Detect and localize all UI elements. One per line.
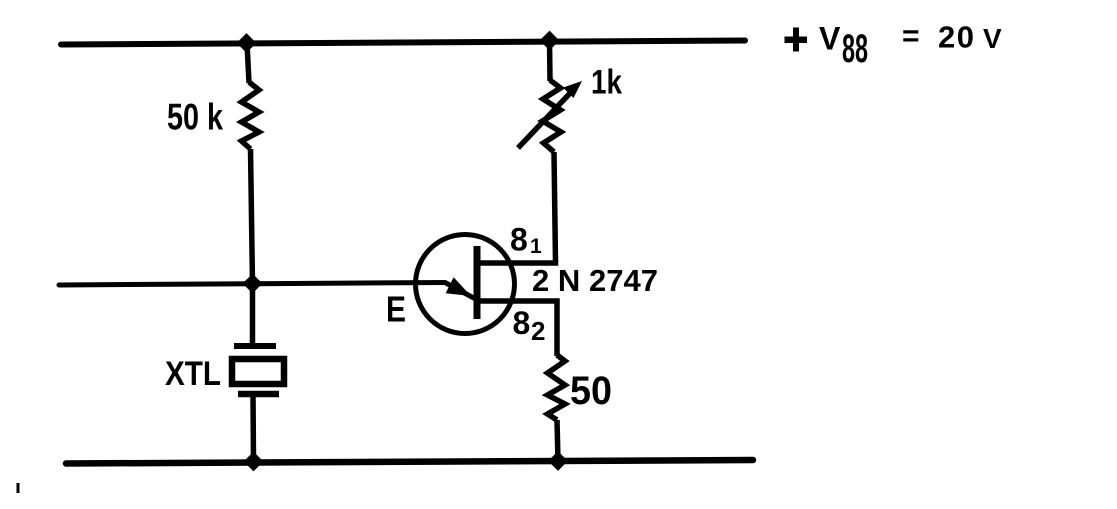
- wire top rail to 1k potentiometer: [547, 41, 553, 81]
- variable resistor 1k: [543, 80, 562, 152]
- resistor R 50k: [242, 82, 260, 149]
- node top-right junction: [540, 31, 560, 51]
- wire 50 resistor to bottom rail: [557, 420, 558, 461]
- svg-text:V: V: [819, 21, 841, 57]
- svg-text:1k: 1k: [591, 64, 622, 102]
- svg-text:2: 2: [531, 316, 545, 346]
- wire base-two lead B2: [478, 301, 557, 356]
- node middle junction: [243, 274, 263, 294]
- svg-text:=: =: [902, 20, 920, 53]
- resistor R 50: [548, 355, 566, 420]
- node bottom-right junction: [548, 451, 568, 471]
- svg-text:XTL: XTL: [165, 355, 221, 393]
- svg-text:2 N 2747: 2 N 2747: [532, 263, 658, 298]
- wire top supply rail: [61, 41, 745, 45]
- svg-text:1: 1: [530, 235, 542, 258]
- svg-text:8: 8: [513, 305, 531, 341]
- svg-text:8: 8: [510, 222, 528, 258]
- svg-text:88: 88: [842, 27, 868, 71]
- wire from top rail to 50k resistor: [247, 43, 249, 83]
- svg-text:V: V: [983, 23, 1002, 54]
- arrow of variable resistor: [518, 81, 582, 148]
- svg-text:20: 20: [938, 20, 974, 55]
- svg-text:50: 50: [570, 369, 612, 413]
- label B2: [513, 305, 546, 346]
- wire 50k resistor to middle-rail junction: [251, 149, 253, 284]
- node bottom-left junction: [244, 452, 264, 472]
- svg-text:E: E: [386, 289, 406, 330]
- svg-text:50 k: 50 k: [167, 97, 223, 138]
- label B1: [510, 222, 542, 259]
- wire bottom ground rail: [66, 460, 753, 464]
- stray scan tick bottom-left: [17, 483, 20, 493]
- wire crystal to bottom rail: [250, 394, 256, 461]
- wire middle junction to crystal: [250, 284, 256, 346]
- wire middle rail (emitter net): [59, 283, 445, 286]
- wire base-one lead B1: [478, 260, 556, 263]
- crystal XTL: [232, 346, 284, 394]
- label +VBB = 20 V supply annotation: [785, 20, 1003, 72]
- node top-left junction: [237, 33, 257, 53]
- UJT transistor 2N2747: [416, 235, 515, 334]
- wire 1k to B1 corner: [554, 152, 556, 262]
